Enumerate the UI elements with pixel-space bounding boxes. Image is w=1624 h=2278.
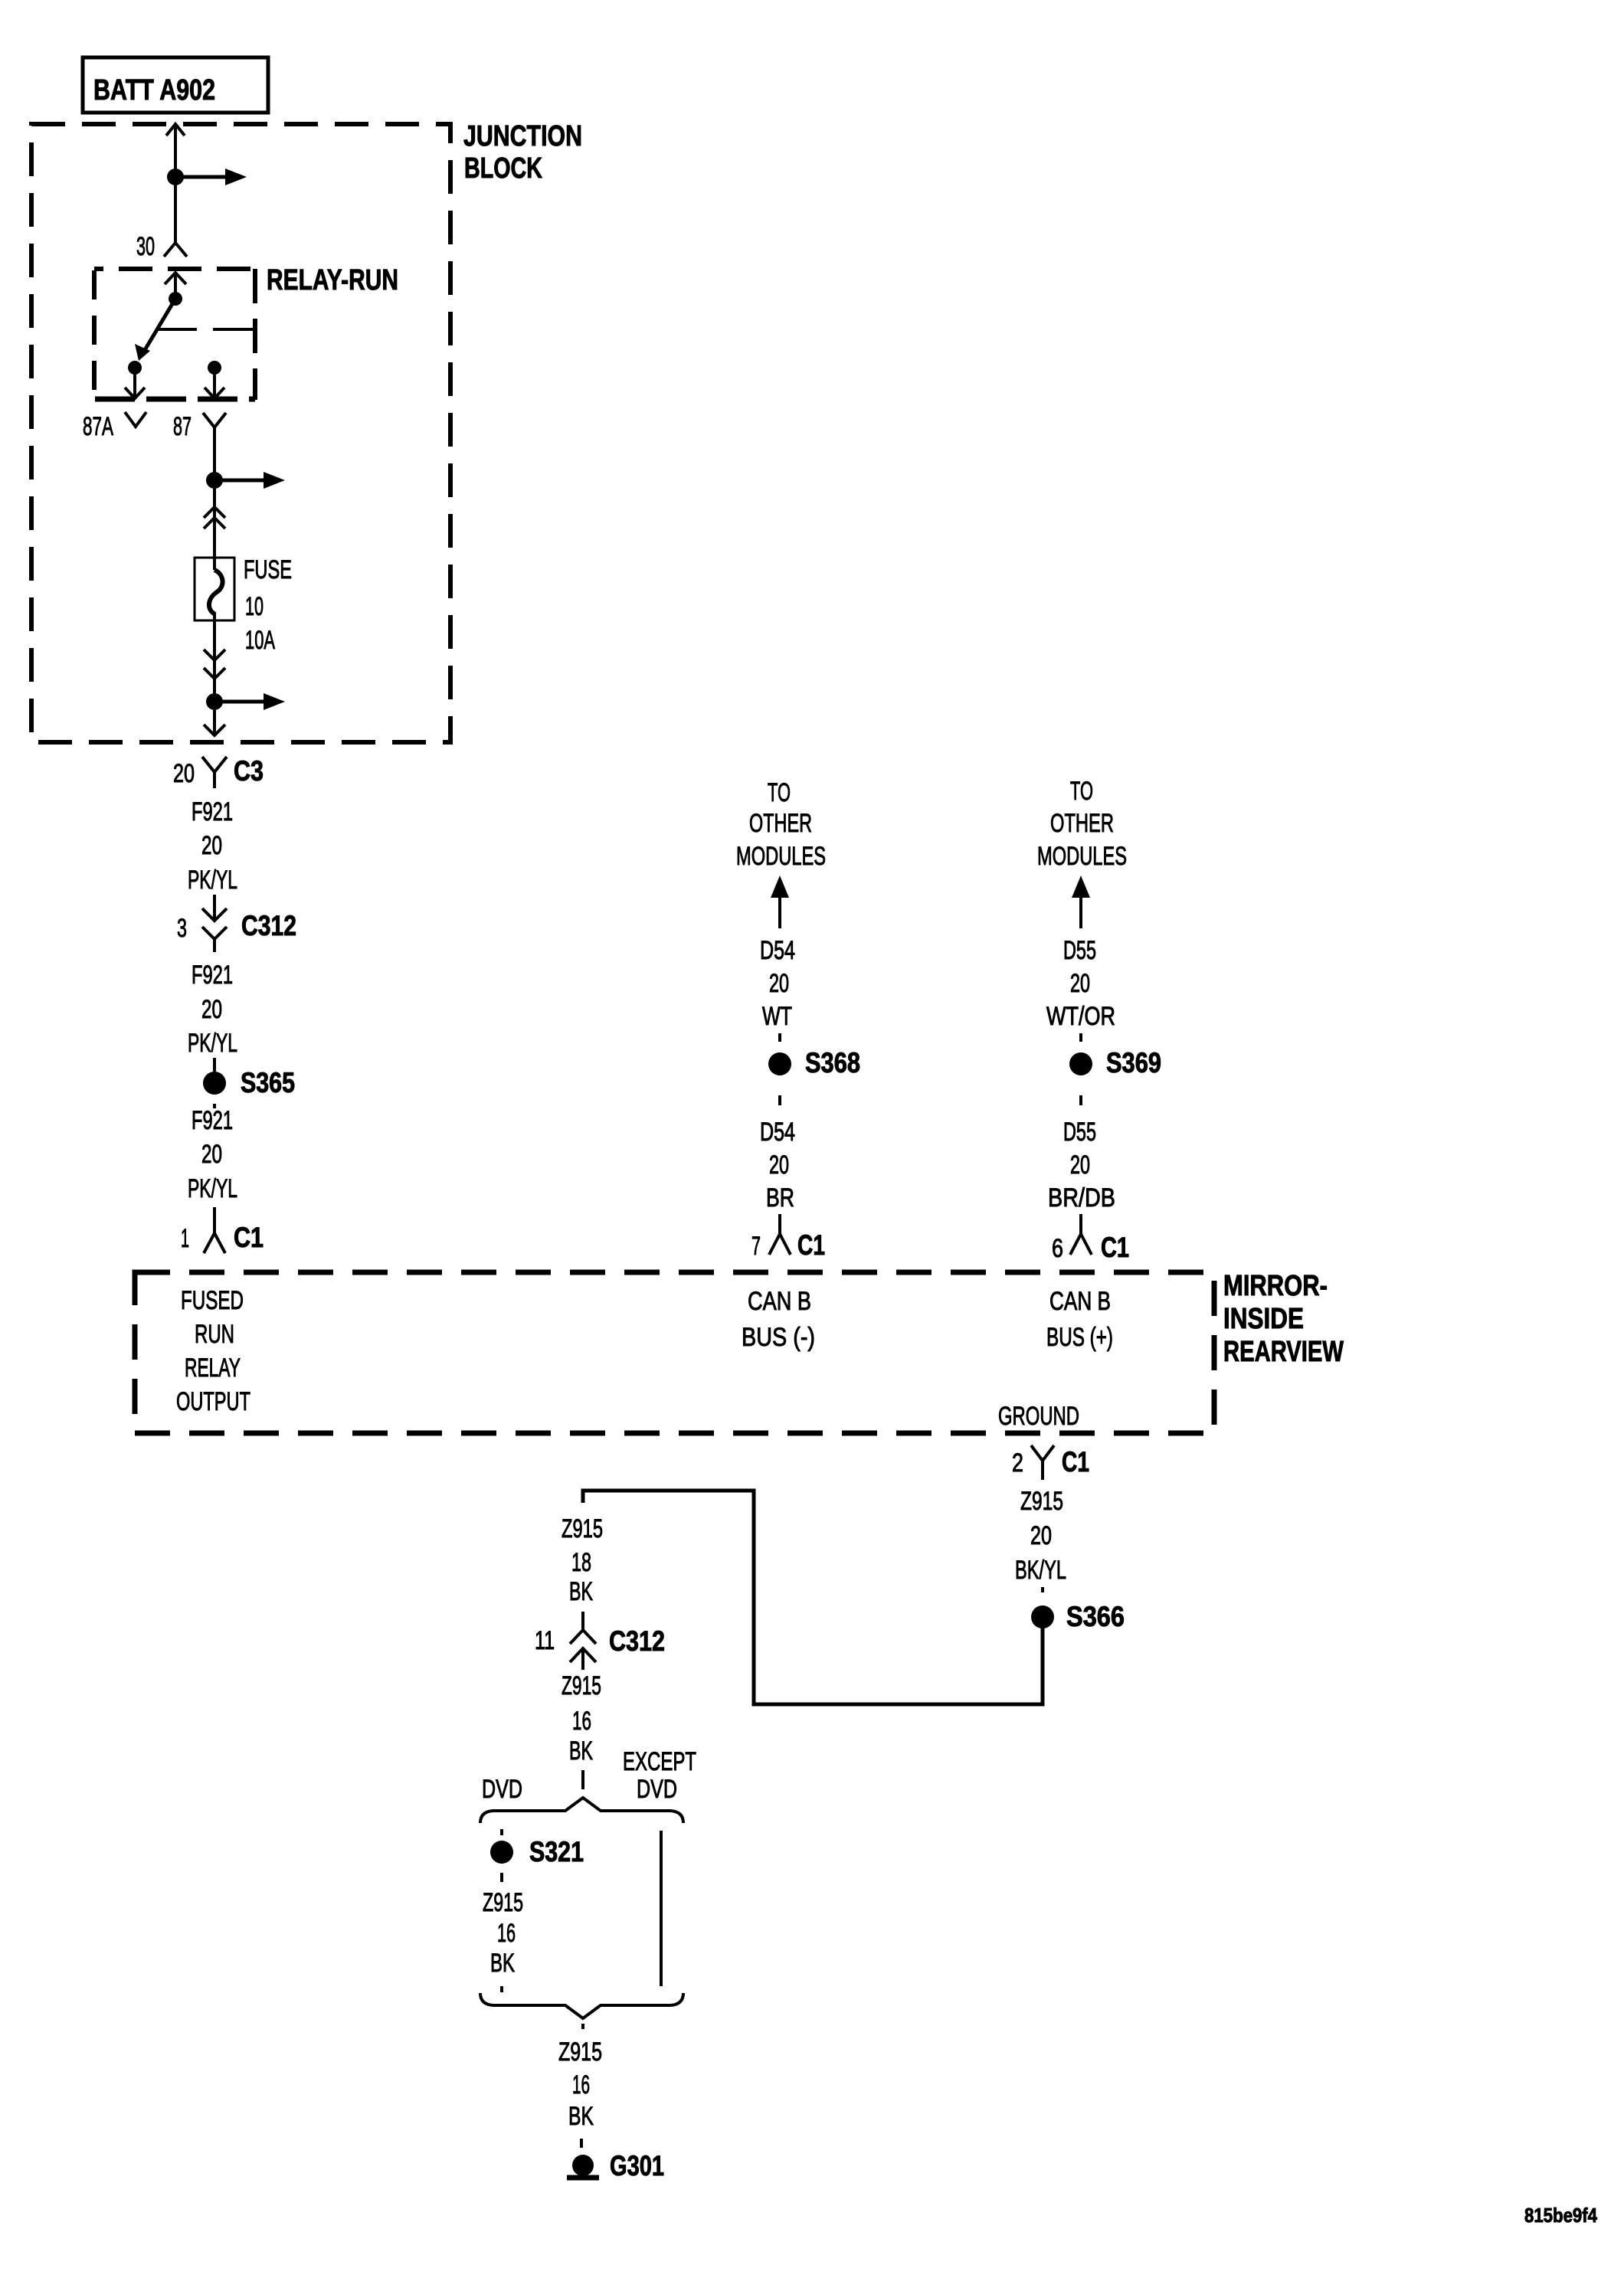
svg-text:S366: S366 xyxy=(1066,1601,1125,1632)
svg-text:20: 20 xyxy=(201,1140,222,1169)
svg-text:16: 16 xyxy=(497,1919,516,1948)
svg-text:7: 7 xyxy=(751,1232,761,1261)
svg-text:EXCEPT: EXCEPT xyxy=(623,1747,696,1776)
ground G301 xyxy=(567,2150,664,2181)
svg-text:CAN B: CAN B xyxy=(1049,1287,1111,1316)
wire label F921 20 PK/YL (lower) xyxy=(188,1106,237,1203)
svg-text:6: 6 xyxy=(1052,1234,1063,1263)
svg-text:S369: S369 xyxy=(1106,1047,1161,1078)
connector C312 pin 3 xyxy=(177,895,296,952)
svg-text:WT/OR: WT/OR xyxy=(1046,1002,1115,1031)
svg-text:20: 20 xyxy=(1070,1150,1090,1180)
svg-text:D55: D55 xyxy=(1063,1118,1096,1147)
wire label D54 20 BR xyxy=(760,1118,795,1213)
svg-text:GROUND: GROUND xyxy=(998,1402,1079,1431)
wire: EXCEPT DVD branch xyxy=(660,1831,663,1986)
svg-text:Z915: Z915 xyxy=(558,2037,602,2067)
svg-text:CAN B: CAN B xyxy=(748,1287,811,1316)
svg-text:C3: C3 xyxy=(234,755,264,787)
fuse FUSE 10 10A xyxy=(195,555,292,655)
svg-text:BR/DB: BR/DB xyxy=(1048,1183,1115,1213)
svg-text:20: 20 xyxy=(201,831,222,860)
node FUSED RUN RELAY OUTPUT (mirror input) xyxy=(176,1286,250,1416)
svg-text:C1: C1 xyxy=(1062,1446,1089,1478)
node GROUND xyxy=(998,1402,1079,1431)
splice S366 xyxy=(1031,1587,1125,1632)
svg-text:D54: D54 xyxy=(760,936,795,965)
junction block (dashed enclosure) xyxy=(31,120,582,742)
pin 87 label and terminal fork xyxy=(173,412,226,441)
svg-text:C1: C1 xyxy=(797,1229,825,1261)
svg-text:F921: F921 xyxy=(192,1106,233,1135)
svg-text:S321: S321 xyxy=(529,1836,584,1867)
wire label D55 20 WT/OR xyxy=(1046,936,1115,1031)
svg-text:BR: BR xyxy=(766,1183,794,1213)
svg-text:Z915: Z915 xyxy=(562,1671,601,1700)
svg-text:815be9f4: 815be9f4 xyxy=(1524,2204,1597,2227)
svg-text:G301: G301 xyxy=(610,2150,664,2181)
svg-text:REARVIEW: REARVIEW xyxy=(1223,1336,1344,1368)
svg-text:RELAY-RUN: RELAY-RUN xyxy=(267,264,398,296)
wire: CAN B (+) to other modules arrow xyxy=(1037,777,1127,928)
svg-text:F921: F921 xyxy=(192,961,233,990)
wire: batt feed from BATT A902 down to relay pin 30 xyxy=(166,124,185,243)
svg-text:C312: C312 xyxy=(241,910,296,941)
relay common pin 30 arrow and pivot xyxy=(165,273,186,306)
connector C1 pin 2 (ground) xyxy=(1012,1445,1089,1480)
node option split DVD / EXCEPT DVD xyxy=(482,1747,696,1804)
splice S369 xyxy=(1069,1033,1161,1105)
svg-text:20: 20 xyxy=(201,995,222,1024)
svg-text:16: 16 xyxy=(572,1707,591,1736)
node CAN B BUS (-) xyxy=(742,1287,815,1352)
svg-text:1: 1 xyxy=(181,1224,189,1253)
splice S368 xyxy=(768,1033,860,1105)
svg-text:TO: TO xyxy=(768,778,791,807)
svg-text:PK/YL: PK/YL xyxy=(188,1174,237,1203)
wire label D55 20 BR/DB xyxy=(1048,1118,1115,1213)
svg-text:PK/YL: PK/YL xyxy=(188,866,237,895)
svg-text:Z915: Z915 xyxy=(1020,1487,1063,1516)
svg-text:S365: S365 xyxy=(241,1067,295,1098)
relay contact 87 with pin arrow xyxy=(205,361,224,398)
svg-text:Z915: Z915 xyxy=(483,1888,523,1917)
svg-text:18: 18 xyxy=(571,1548,591,1577)
svg-text:TO: TO xyxy=(1070,777,1093,806)
connector C1 pin 1 xyxy=(181,1207,264,1253)
svg-text:87: 87 xyxy=(173,412,192,441)
node CAN B BUS (+) xyxy=(1046,1287,1113,1352)
svg-text:20: 20 xyxy=(769,1150,789,1180)
svg-text:C1: C1 xyxy=(234,1222,264,1253)
svg-text:MODULES: MODULES xyxy=(1037,842,1127,871)
module MIRROR-INSIDE REARVIEW (dashed box) xyxy=(135,1270,1344,1433)
svg-text:16: 16 xyxy=(572,2070,590,2100)
svg-text:OTHER: OTHER xyxy=(749,809,812,838)
svg-text:Z915: Z915 xyxy=(562,1514,603,1543)
node: junction dot with branch arrow right xyxy=(167,169,247,185)
svg-text:WT: WT xyxy=(762,1002,792,1031)
svg-text:S368: S368 xyxy=(805,1047,860,1078)
pin 30 terminal fork xyxy=(136,232,187,261)
svg-text:BUS (+): BUS (+) xyxy=(1046,1323,1113,1352)
svg-text:30: 30 xyxy=(136,232,155,261)
svg-text:RELAY: RELAY xyxy=(185,1353,241,1383)
wire: 87 output down through fuse to junction block exit xyxy=(213,427,216,735)
svg-text:PK/YL: PK/YL xyxy=(188,1029,237,1058)
connector C1 pin 7 xyxy=(751,1214,825,1261)
splice S321 (DVD branch) xyxy=(490,1829,584,1882)
svg-text:DVD: DVD xyxy=(637,1775,677,1804)
svg-text:20: 20 xyxy=(1030,1521,1052,1550)
svg-text:10A: 10A xyxy=(245,626,275,655)
svg-text:OTHER: OTHER xyxy=(1050,809,1114,838)
svg-text:3: 3 xyxy=(177,914,187,943)
wire label F921 20 PK/YL (upper) xyxy=(188,797,237,895)
svg-text:BK: BK xyxy=(569,1736,593,1766)
svg-text:JUNCTION: JUNCTION xyxy=(463,120,582,152)
connector double chevron (up) above fuse xyxy=(204,507,225,529)
splice S365 xyxy=(203,1058,295,1108)
wire: ground run from S366 to left branch xyxy=(583,1491,1043,1704)
svg-text:87A: 87A xyxy=(83,412,113,441)
svg-text:OUTPUT: OUTPUT xyxy=(176,1387,250,1416)
brace (upper option split) xyxy=(480,1798,683,1823)
relay switch blade with arrowhead xyxy=(135,299,175,361)
node: junction dot with branch arrow right (below fuse) xyxy=(206,693,285,710)
svg-text:BLOCK: BLOCK xyxy=(464,152,542,185)
relay coil actuation line xyxy=(159,328,255,331)
junction block exit arrow xyxy=(204,725,225,735)
svg-text:20: 20 xyxy=(173,759,195,788)
svg-text:D55: D55 xyxy=(1063,936,1096,965)
svg-text:MIRROR-: MIRROR- xyxy=(1223,1270,1328,1302)
power source box BATT A902 xyxy=(83,57,268,113)
wire label Z915 20 BK/YL xyxy=(1015,1487,1066,1585)
wire label Z915 16 BK (DVD branch) xyxy=(483,1888,523,1992)
svg-text:INSIDE: INSIDE xyxy=(1223,1303,1304,1335)
node: junction dot with branch arrow right (above fuse) xyxy=(206,472,285,489)
svg-text:FUSE: FUSE xyxy=(244,555,292,584)
connector C1 pin 6 xyxy=(1052,1214,1129,1263)
svg-text:BK: BK xyxy=(569,1577,593,1606)
svg-text:BK/YL: BK/YL xyxy=(1015,1556,1066,1585)
svg-text:BK: BK xyxy=(490,1949,515,1978)
wire label Z915 18 BK xyxy=(562,1514,603,1606)
svg-text:BATT A902: BATT A902 xyxy=(93,74,215,106)
svg-text:DVD: DVD xyxy=(482,1775,522,1804)
diagram id 815be9f4 xyxy=(1524,2204,1597,2227)
connector C312 pin 11 xyxy=(535,1612,665,1670)
wire label D54 20 WT xyxy=(760,936,795,1031)
svg-text:BUS (-): BUS (-) xyxy=(742,1323,815,1352)
wire: CAN B (-) to other modules arrow xyxy=(736,778,826,928)
pin 87A label and unused terminal chevron xyxy=(83,412,146,441)
svg-text:11: 11 xyxy=(535,1626,555,1655)
svg-text:MODULES: MODULES xyxy=(736,842,826,871)
connector C3 pin 20 xyxy=(173,755,264,788)
svg-text:20: 20 xyxy=(769,969,789,998)
wire label F921 20 PK/YL (middle) xyxy=(188,961,237,1058)
svg-text:C312: C312 xyxy=(609,1625,665,1657)
relay contact 87A with pin arrow xyxy=(125,361,145,398)
connector double chevron (down) below fuse xyxy=(204,650,225,679)
svg-text:FUSED: FUSED xyxy=(181,1286,244,1315)
svg-text:10: 10 xyxy=(245,592,264,621)
brace (lower option merge) xyxy=(480,1993,683,2018)
svg-text:F921: F921 xyxy=(192,797,233,826)
svg-text:BK: BK xyxy=(568,2102,594,2131)
svg-text:2: 2 xyxy=(1012,1448,1023,1478)
relay RELAY-RUN (dashed box) xyxy=(94,264,398,400)
svg-text:RUN: RUN xyxy=(195,1320,234,1349)
wire label Z915 16 BK (to ground) xyxy=(558,2024,602,2148)
wire label Z915 16 BK xyxy=(562,1671,601,1766)
svg-text:D54: D54 xyxy=(760,1118,795,1147)
svg-text:20: 20 xyxy=(1070,969,1090,998)
svg-text:C1: C1 xyxy=(1101,1232,1129,1263)
